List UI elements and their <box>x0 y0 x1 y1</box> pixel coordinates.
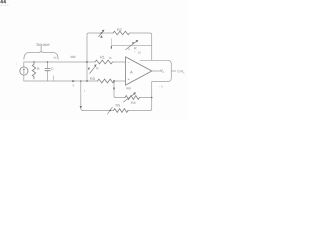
arrowhead current V4 down <box>113 88 115 91</box>
wiper arrow S4 <box>124 93 135 102</box>
wiper arrow S3 <box>126 41 137 49</box>
svg-text:R3: R3 <box>90 77 95 81</box>
arrowhead S3 <box>136 40 139 43</box>
arrowhead current H3 <box>72 80 75 82</box>
wire V2 <box>151 40 153 60</box>
arrowhead S2 <box>94 64 97 67</box>
resistor R4 <box>125 96 139 100</box>
junction dot H5 wiper <box>109 110 111 112</box>
wire H4 <box>116 97 126 99</box>
junction dot S3 <box>132 42 134 44</box>
svg-text:− b: − b <box>159 85 164 89</box>
faint label above H2 b <box>71 56 76 58</box>
page number 44 <box>1 0 6 3</box>
svg-text:C: C <box>51 67 54 71</box>
wire H1 feedback top <box>87 33 113 38</box>
resistor Rs vertical <box>32 62 35 79</box>
svg-text:Source: Source <box>36 42 50 47</box>
svg-text:b: b <box>110 56 112 60</box>
arrowhead S4 <box>133 92 136 95</box>
wire wiper stub <box>111 39 113 46</box>
dark tick wiper left end <box>111 46 112 49</box>
source arrow <box>23 69 25 74</box>
wire tick to RL <box>171 70 176 72</box>
svg-text:+: + <box>134 50 136 54</box>
wire H1 right part <box>130 33 152 40</box>
junction dot node A <box>86 61 88 63</box>
junction dot node C <box>113 80 115 82</box>
wiper mark on H5 <box>108 107 113 114</box>
junction dot rail right <box>151 97 153 99</box>
svg-text:R4: R4 <box>131 101 136 105</box>
faint blob below triangle <box>126 87 131 89</box>
wire H2 top input <box>24 61 95 63</box>
junction dot Rs top <box>33 61 34 62</box>
output box <box>140 60 171 81</box>
junction dot rail left <box>80 80 82 82</box>
arrowhead S1 <box>102 30 105 33</box>
wire V1 <box>86 38 88 81</box>
op-amp U1 <box>126 57 152 85</box>
source arrowhead <box>23 68 25 70</box>
tick above H3 <box>52 76 55 81</box>
junction dot wiper H1 <box>101 32 103 34</box>
wire V4 from + input node <box>114 81 116 98</box>
wire output tip <box>152 70 162 72</box>
wire wiper lead y45 <box>112 44 152 46</box>
wire H2 to op-amp <box>113 61 126 63</box>
faint header dashes <box>0 4 2 7</box>
arrowhead current left return down <box>80 106 82 109</box>
svg-text:R: R <box>37 67 40 71</box>
capacitor stub top <box>47 62 49 68</box>
resistor R3 <box>98 79 115 83</box>
wire left edge top <box>23 62 25 67</box>
resistor R2 <box>113 31 130 34</box>
faint label above H2 a <box>54 57 57 59</box>
arrowhead S1 down <box>100 35 103 38</box>
wire H3 to op-amp <box>114 80 126 82</box>
arrowhead on V1 mid <box>88 68 90 71</box>
svg-text:R2: R2 <box>117 28 122 32</box>
junction dot cap top <box>47 61 48 62</box>
svg-text:A: A <box>130 70 133 75</box>
resistor R5 <box>114 109 129 113</box>
junction dot node B <box>86 80 88 82</box>
wire H5 bottom rail <box>82 110 113 112</box>
current source circle <box>20 67 28 75</box>
capacitor stub bottom <box>47 71 49 81</box>
wire left edge bottom <box>23 75 25 81</box>
svg-text:(b): (b) <box>138 51 142 55</box>
wiper arrow S2 <box>90 66 96 73</box>
wiper arrow S1 <box>99 31 104 37</box>
capacitor plates <box>45 69 50 71</box>
svg-text:R1: R1 <box>100 55 105 59</box>
wire H4 right part <box>139 97 151 99</box>
resistor R1 <box>95 60 113 64</box>
wire H5 right part <box>128 82 152 111</box>
svg-text:R5: R5 <box>116 103 121 107</box>
brace tick <box>40 46 42 51</box>
wire H3 bottom input <box>24 80 98 82</box>
wire ground return left <box>81 81 83 111</box>
svg-text:v: v <box>73 84 75 88</box>
brace over source <box>24 51 58 59</box>
